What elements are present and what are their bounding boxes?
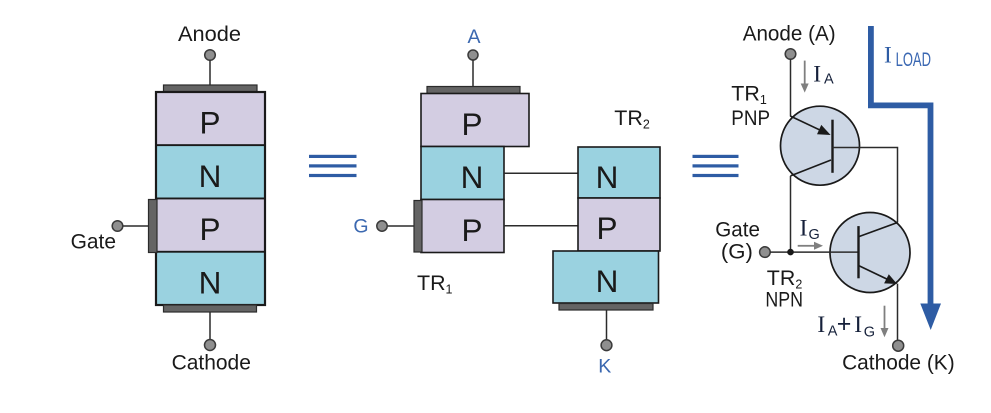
terminal G [377,221,387,231]
gate terminal [760,247,771,258]
anode terminal [785,49,796,60]
terminal K [601,340,612,351]
svg-text:N: N [596,263,619,299]
TR1 anode electrode bar [427,87,520,94]
load current arrow ILOAD [871,26,931,304]
terminal A [468,50,478,60]
wire P-P [504,225,578,227]
svg-text:P: P [596,210,617,246]
TR2 layer N2 [553,251,659,303]
wire anode to electrode [209,60,211,85]
gate terminal [112,221,123,232]
wire A to electrode [472,60,474,87]
cathode terminal [205,340,216,351]
svg-text:N: N [199,158,222,194]
svg-text:N: N [596,159,619,195]
cathode terminal [893,340,904,351]
TR2 collector line [859,223,898,237]
layer P1 [156,92,265,145]
wire cathode [209,312,211,340]
TR2 cathode electrode bar [559,304,653,311]
svg-text:P: P [199,211,220,247]
TR2 emitter line [859,266,894,283]
junction gate node [787,249,794,256]
wire TR1 collector to gate junction [790,176,792,252]
wire K [606,310,608,340]
TR2 emitter arrowhead [884,274,897,284]
svg-text:Cathode: Cathode [172,350,251,374]
transistor TR1 PNP circle [781,106,860,185]
TR1 emitter line [791,116,828,133]
svg-text:(G): (G) [721,240,753,264]
current arrow IG [798,242,823,250]
TR1 gate electrode bar [414,201,422,253]
svg-text:Cathode (K): Cathode (K) [842,350,955,374]
TR2 layer P [578,198,660,251]
wire gate to TR2 base [770,251,857,253]
TR2 layer N1 [578,147,660,198]
svg-text:N: N [199,264,222,300]
equivalence sign 1 [309,155,357,177]
layer N1 [156,145,265,198]
TR1 base bar [831,120,833,173]
svg-text:G: G [809,227,820,243]
svg-text:I: I [817,312,825,338]
wire G [387,225,414,227]
anode terminal [205,50,216,61]
svg-text:LOAD: LOAD [896,50,931,71]
svg-text:P: P [461,106,482,142]
ILOAD arrowhead [920,304,941,331]
svg-text:PNP: PNP [731,106,770,130]
svg-text:Anode: Anode [178,22,241,46]
wire gate [123,225,149,227]
svg-text:+: + [837,310,852,338]
svg-text:G: G [353,216,368,238]
svg-text:P: P [199,105,220,141]
svg-text:Gate: Gate [71,229,116,253]
TR1 emitter arrowhead [817,125,831,135]
cathode electrode bar [164,305,257,312]
svg-text:P: P [461,212,482,248]
TR2 base bar [857,226,859,278]
svg-text:Anode (A): Anode (A) [743,21,836,45]
current arrow IA [801,61,809,93]
svg-text:I: I [884,42,892,68]
svg-text:A: A [824,71,834,87]
layer P2 [156,199,265,252]
svg-text:I: I [800,216,808,242]
svg-text:I: I [813,62,821,88]
svg-text:N: N [461,159,484,195]
TR1 layer N [421,147,504,200]
anode electrode bar [164,85,258,92]
svg-text:NPN: NPN [765,287,803,311]
TR1 collector line [791,160,832,176]
TR1 layer P1 [421,94,529,147]
svg-text:G: G [864,324,875,340]
svg-text:I: I [854,312,862,338]
equivalence sign 2 [693,155,739,177]
current arrow IA+IG [881,306,889,338]
svg-text:Gate: Gate [715,218,760,242]
svg-text:K: K [598,356,611,378]
wire TR1 base to TR2 collector [833,148,898,223]
layer N2 [156,252,265,305]
wire anode to TR1 emitter [790,59,792,116]
svg-text:A: A [467,26,480,48]
TR1 layer P2 [421,200,504,253]
wire N-N [504,172,578,174]
wire TR2 emitter to cathode [897,284,899,341]
transistor TR2 NPN circle [830,213,910,293]
stack outline [156,92,265,305]
gate electrode bar [149,200,158,253]
